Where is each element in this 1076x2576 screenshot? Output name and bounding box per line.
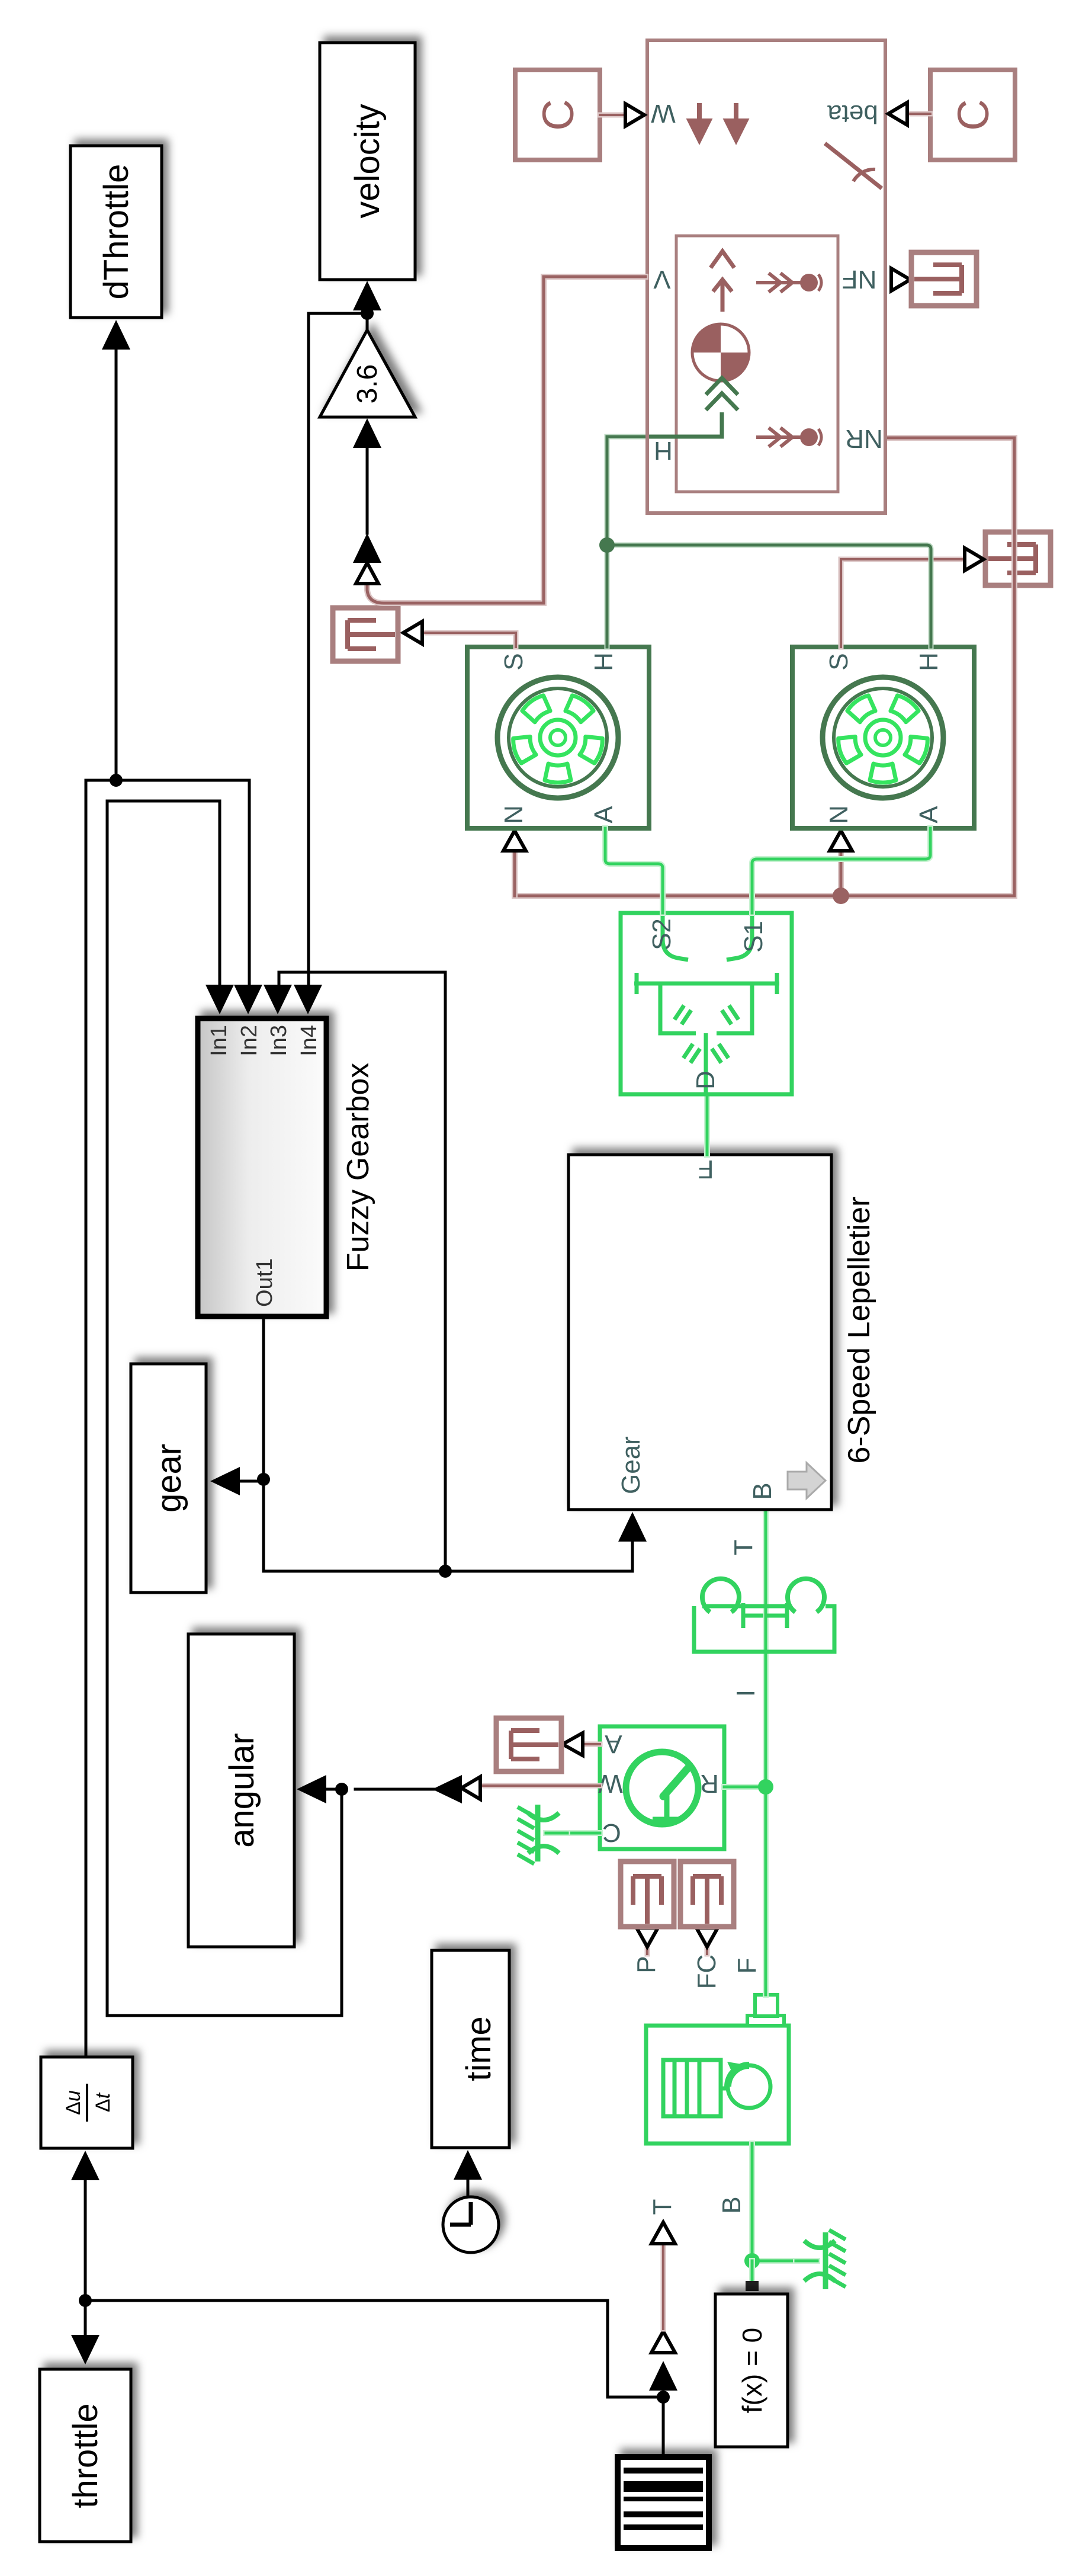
wire: angular junction to fuzzy In1 xyxy=(107,801,342,2016)
wire: J3 down to gearbox Gear input xyxy=(264,1479,632,1571)
svg-text:In2: In2 xyxy=(237,1025,262,1056)
wire: clock to time xyxy=(467,2178,470,2197)
node B (engine base junction) xyxy=(744,2253,760,2269)
svg-text:In4: In4 xyxy=(297,1025,322,1056)
velocity display block xyxy=(320,43,415,280)
svg-text:R: R xyxy=(700,1769,719,1798)
gain block 3.6 xyxy=(320,330,415,417)
svg-text:N: N xyxy=(824,805,853,824)
tire block front xyxy=(467,647,649,828)
svg-text:6-Speed Lepelletier: 6-Speed Lepelletier xyxy=(842,1197,876,1464)
wire: Out1 to gear display and gearbox Gear input xyxy=(262,1316,265,1479)
derivative block du/dt xyxy=(41,2057,133,2148)
node J1 xyxy=(110,774,123,787)
solver configuration block f(x)=0 xyxy=(715,2294,788,2447)
svg-text:FC: FC xyxy=(692,1955,721,1989)
NF output to terminator xyxy=(891,268,910,291)
node on shaft (sensor tap) xyxy=(758,1779,773,1795)
svg-text:Δu: Δu xyxy=(62,2090,85,2115)
6-speed lepelletier block xyxy=(568,1155,831,1510)
svg-text:In3: In3 xyxy=(266,1025,291,1056)
ps terminator (engine FC) xyxy=(680,1861,734,1927)
wire: to angular junction xyxy=(355,1788,433,1791)
svg-text:T: T xyxy=(729,1540,758,1556)
wire: J0 to throttle display xyxy=(84,2301,87,2339)
node on normal-force bus xyxy=(833,887,849,904)
wire: junction to solver port xyxy=(749,2261,755,2280)
gray variant arrow icon xyxy=(788,1463,826,1498)
wire: J0 to derivative input xyxy=(84,2173,87,2301)
svg-text:A: A xyxy=(914,806,943,824)
svg-text:B: B xyxy=(748,1482,777,1500)
node J0 (throttle branch) xyxy=(79,2294,92,2307)
svg-text:S2: S2 xyxy=(647,918,676,950)
svg-text:A: A xyxy=(589,806,618,824)
svg-text:S: S xyxy=(824,653,853,670)
svg-text:T: T xyxy=(648,2199,677,2215)
axle icon at x=3871 xyxy=(756,273,801,292)
wire: tire front A to differential S2 xyxy=(605,828,663,913)
svg-text:velocity: velocity xyxy=(348,104,387,218)
wire: gear feedback to fuzzy In3 xyxy=(279,972,445,1571)
svg-text:f(x) = 0: f(x) = 0 xyxy=(737,2328,767,2413)
engine FC output to terminator xyxy=(705,1948,710,1954)
dThrottle display block xyxy=(70,146,162,318)
svg-text:time: time xyxy=(460,2016,498,2081)
svg-text:Fuzzy Gearbox: Fuzzy Gearbox xyxy=(341,1063,375,1272)
sensor A output to terminator xyxy=(585,1742,600,1747)
svg-text:S: S xyxy=(499,653,528,670)
dark green hub bus: vehicle H to tire H ports xyxy=(607,437,647,647)
svg-text:N: N xyxy=(499,805,528,824)
svg-text:D: D xyxy=(691,1071,720,1090)
node J_vel xyxy=(361,307,374,320)
svg-text:F: F xyxy=(698,1155,714,1184)
gear display block xyxy=(131,1364,206,1593)
sensor W output (ps) xyxy=(481,1783,600,1789)
node on hub bus xyxy=(599,537,615,553)
wire: J2 up-left to J0 xyxy=(89,2301,663,2397)
ps constant (incline) xyxy=(930,70,1015,160)
svg-text:F: F xyxy=(733,1958,762,1974)
mechanical rotational reference (sensor C) xyxy=(558,1830,600,1836)
signal builder block xyxy=(618,2457,709,2548)
svg-text:H: H xyxy=(654,436,673,465)
svg-text:gear: gear xyxy=(150,1444,188,1513)
svg-text:NR: NR xyxy=(845,424,883,453)
wire: tire rear A to differential S1 xyxy=(752,828,930,913)
fuzzy In2/In3/In4 port arrows xyxy=(234,985,262,1014)
ps terminator (tire front S) xyxy=(333,608,398,661)
signal arrow to angular line xyxy=(432,1775,462,1803)
torque converter block xyxy=(694,1579,834,1652)
svg-text:B: B xyxy=(717,2196,746,2213)
node J2 (signal builder branch) xyxy=(657,2391,670,2404)
wire: constant to beta port xyxy=(910,111,930,117)
engine P output to terminator xyxy=(645,1948,650,1954)
svg-text:H: H xyxy=(589,652,618,671)
engine F port flange xyxy=(747,2016,784,2026)
wire: J1 to dThrottle xyxy=(115,346,118,780)
svg-text:Gear: Gear xyxy=(616,1436,645,1494)
svg-text:dThrottle: dThrottle xyxy=(97,164,136,300)
derivative output line to J1 xyxy=(86,780,116,2057)
wire: to gain input xyxy=(366,444,369,533)
svg-text:angular: angular xyxy=(223,1733,261,1847)
mechanical rotational reference (engine side) xyxy=(752,2258,805,2264)
wire: velocity tap to fuzzy In4 xyxy=(309,313,367,988)
ps terminator (NF) xyxy=(911,252,977,306)
wire: constant to W port xyxy=(600,113,623,118)
svg-text:A: A xyxy=(605,1729,622,1758)
wire: sensor R to shaft xyxy=(724,1784,766,1790)
ps constant (headwind) xyxy=(515,70,600,160)
driveline shaft: engine F to gearbox B xyxy=(763,1510,769,1995)
svg-text:In1: In1 xyxy=(207,1025,232,1056)
axle icon at x=3610 xyxy=(756,428,801,447)
svg-text:NF: NF xyxy=(842,265,877,294)
ideal rotational motion sensor block xyxy=(600,1726,724,1849)
node J_in3 xyxy=(439,1565,452,1578)
angular display block xyxy=(188,1634,294,1947)
svg-text:Δt: Δt xyxy=(92,2092,114,2112)
ps terminator (sensor A) xyxy=(496,1718,561,1771)
wire: signal builder output to junction xyxy=(662,2398,665,2457)
svg-text:Out1: Out1 xyxy=(252,1258,277,1307)
svg-text:W: W xyxy=(651,99,676,128)
svg-text:C: C xyxy=(534,99,583,130)
wire: gearbox F to differential D xyxy=(704,1094,710,1155)
svg-text:beta: beta xyxy=(827,100,878,129)
svg-text:H: H xyxy=(914,652,943,671)
wire: tire front S to terminator xyxy=(423,633,516,647)
clock block xyxy=(443,2197,499,2253)
wire: tire rear S to terminator xyxy=(841,559,964,647)
svg-text:V: V xyxy=(653,265,671,294)
differential block xyxy=(621,913,792,1094)
node J_ang xyxy=(335,1783,348,1796)
svg-text:C: C xyxy=(602,1818,621,1847)
svg-text:throttle: throttle xyxy=(66,2403,105,2508)
generic engine block xyxy=(646,2026,789,2144)
svg-text:C: C xyxy=(949,99,998,130)
time block xyxy=(432,1950,509,2148)
node J3 xyxy=(257,1473,270,1486)
svg-text:I: I xyxy=(731,1690,760,1697)
wire: simulink-ps converter chain to engine T port xyxy=(649,2361,677,2391)
wire: vehicle V output xyxy=(367,277,645,603)
ps terminator (engine P) xyxy=(621,1861,674,1927)
ps terminator (tire rear S crossing) xyxy=(985,532,1051,585)
svg-text:S1: S1 xyxy=(739,921,768,953)
svg-text:P: P xyxy=(632,1956,661,1973)
wire: gain to velocity xyxy=(366,306,369,330)
vehicle body block xyxy=(647,40,885,513)
tire block rear xyxy=(792,647,974,828)
svg-text:3.6: 3.6 xyxy=(352,364,383,404)
throttle block xyxy=(40,2369,131,2542)
wire: J1 to fuzzy In2 xyxy=(116,780,249,988)
brown normal-force bus: NR to tire N ports xyxy=(515,438,1014,896)
fuzzy gearbox subsystem block xyxy=(198,1018,326,1316)
wire: engine B to ground and solver xyxy=(749,2144,755,2261)
